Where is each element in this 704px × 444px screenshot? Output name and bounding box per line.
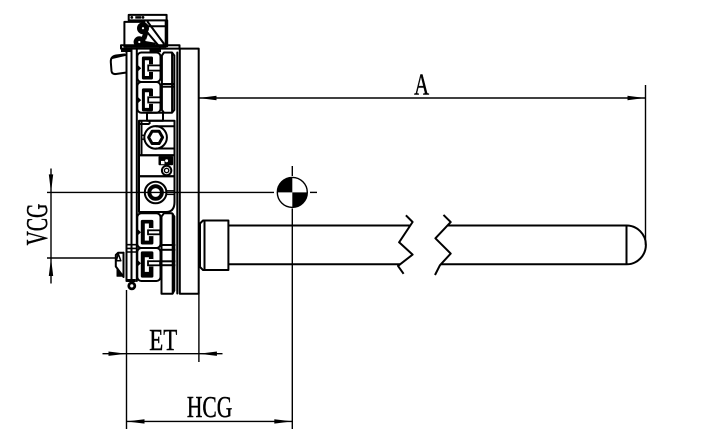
svg-text:HCG: HCG (187, 390, 233, 424)
svg-text:A: A (414, 67, 429, 101)
svg-text:VCG: VCG (20, 204, 54, 246)
svg-text:ET: ET (149, 323, 177, 357)
